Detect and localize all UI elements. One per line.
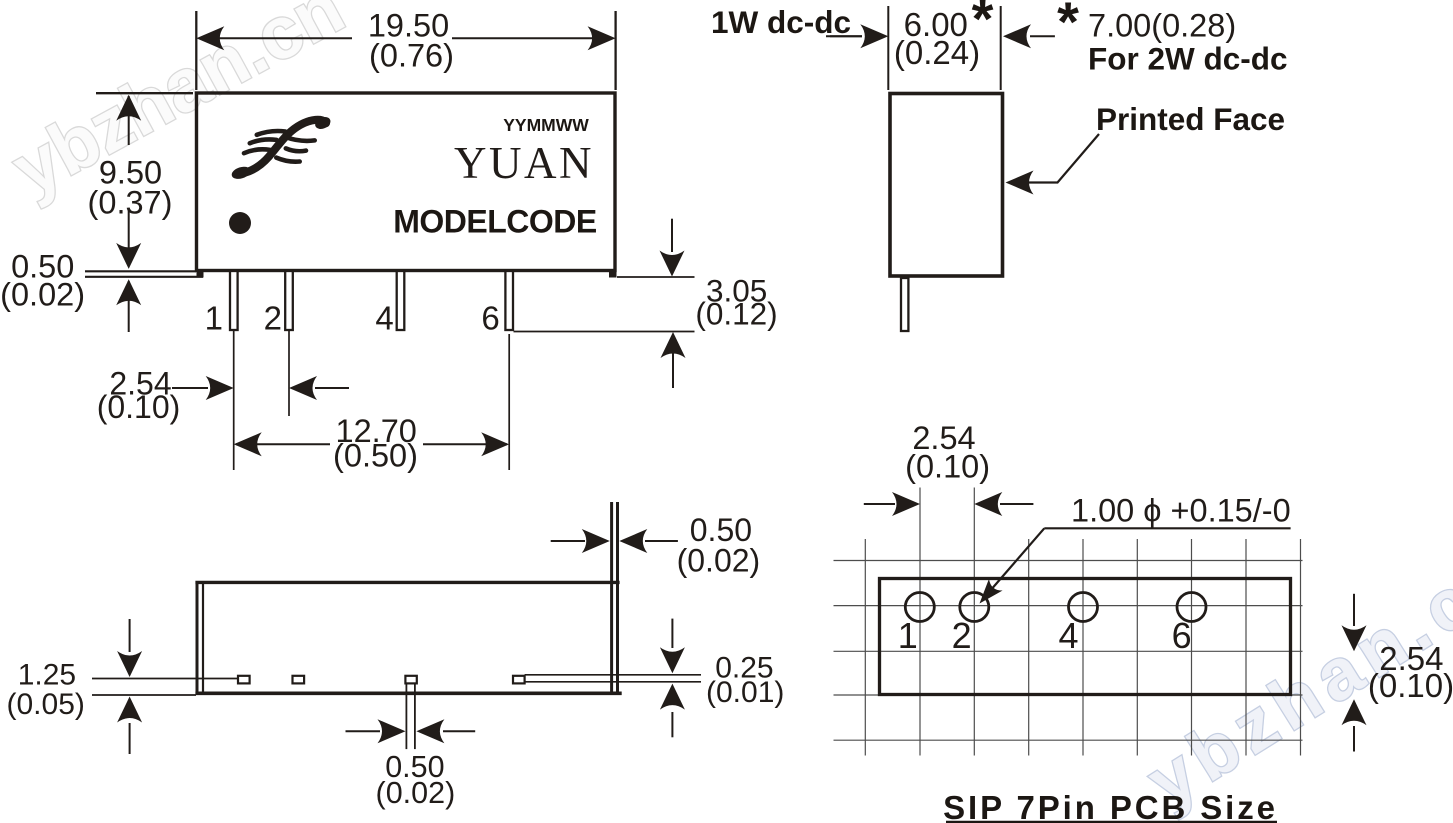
pcb grid bbox=[834, 539, 1303, 756]
svg-text:1.25: 1.25 bbox=[18, 659, 76, 692]
bottom view pad 6 bbox=[513, 676, 525, 684]
front view bottom-right standoff tab bbox=[609, 270, 617, 278]
dimension 9.50 height bbox=[96, 93, 193, 269]
dimension 0.50 standoff left bbox=[85, 271, 203, 332]
title underline bbox=[946, 821, 1277, 823]
svg-text:(0.37): (0.37) bbox=[88, 185, 173, 221]
pcb hole 1 bbox=[905, 593, 934, 622]
pcb hole 6 bbox=[1177, 593, 1206, 622]
dimension 12.70 pin span bbox=[234, 432, 510, 456]
svg-text:1: 1 bbox=[205, 300, 223, 337]
pin 6 extension line bbox=[508, 334, 510, 470]
svg-text:(0.10): (0.10) bbox=[97, 389, 181, 425]
svg-text:(0.24): (0.24) bbox=[894, 34, 980, 71]
svg-text:(0.10): (0.10) bbox=[905, 449, 990, 485]
dimension 0.50 wall top right bbox=[551, 529, 678, 553]
pcb hole 1 grid/extension line bbox=[919, 488, 921, 756]
side view body outline bbox=[890, 94, 1003, 277]
svg-text:(0.01): (0.01) bbox=[706, 676, 784, 709]
leader arrow Printed Face bbox=[1006, 134, 1100, 195]
logo ball terminals bbox=[230, 165, 252, 182]
svg-text:ybzhan.cn: ybzhan.cn bbox=[0, 0, 357, 211]
bottom view wall double line (0.50 wall) bbox=[612, 502, 618, 695]
svg-text:7.00(0.28): 7.00(0.28) bbox=[1088, 7, 1236, 43]
pin 1 extension line bbox=[233, 331, 235, 470]
dimension 2.54 pcb right bbox=[1342, 594, 1367, 752]
pin 6 bbox=[505, 271, 513, 330]
dimension 3.05 pin length bbox=[514, 219, 695, 388]
bottom view pad 1 bbox=[238, 676, 250, 684]
svg-text:For 2W dc-dc: For 2W dc-dc bbox=[1088, 41, 1288, 77]
dimension 6.00 depth bbox=[826, 6, 1055, 90]
svg-text:1.00 ϕ +0.15/-0: 1.00 ϕ +0.15/-0 bbox=[1071, 492, 1291, 528]
svg-text:(0.10): (0.10) bbox=[1368, 667, 1453, 704]
svg-text:1W dc-dc: 1W dc-dc bbox=[711, 4, 851, 40]
svg-text:(0.02): (0.02) bbox=[0, 277, 85, 313]
bottom view outline bbox=[195, 581, 621, 695]
pin 2 extension line bbox=[288, 331, 290, 416]
front view bottom-left standoff tab bbox=[197, 270, 204, 278]
leader arrow 1W dc-dc bbox=[830, 35, 862, 37]
svg-text:(0.76): (0.76) bbox=[369, 38, 454, 74]
svg-text:2: 2 bbox=[952, 615, 972, 656]
pcb hole 4 bbox=[1069, 593, 1098, 622]
watermark bottom-right bbox=[1134, 530, 1453, 823]
pcb hole 2 bbox=[960, 593, 989, 622]
svg-text:(0.12): (0.12) bbox=[695, 296, 777, 332]
pin 1 index dot bbox=[229, 212, 251, 234]
svg-text:YUAN: YUAN bbox=[454, 138, 594, 188]
svg-text:6: 6 bbox=[1172, 615, 1192, 656]
dimension 19.50 width bbox=[196, 11, 615, 90]
svg-text:(0.50): (0.50) bbox=[333, 438, 418, 474]
bottom view pad 4 bbox=[405, 676, 416, 684]
dimension 0.25 right bbox=[525, 619, 701, 738]
svg-text:2: 2 bbox=[264, 300, 282, 337]
svg-text:*: * bbox=[972, 0, 994, 50]
svg-text:4: 4 bbox=[375, 300, 393, 337]
pcb hole 2 grid/extension line bbox=[973, 488, 975, 756]
svg-text:*: * bbox=[1057, 0, 1079, 53]
pin 1 bbox=[230, 271, 238, 330]
pcb outline bbox=[880, 579, 1291, 695]
dimension 0.50 pin width bottom bbox=[346, 684, 476, 749]
svg-text:Printed Face: Printed Face bbox=[1096, 101, 1285, 137]
svg-text:6: 6 bbox=[481, 300, 499, 337]
bottom view pad 2 bbox=[293, 676, 305, 684]
side view pin bbox=[901, 278, 908, 331]
front view body outline bbox=[197, 93, 616, 271]
svg-text:1: 1 bbox=[898, 615, 918, 656]
svg-text:SIP 7Pin PCB Size: SIP 7Pin PCB Size bbox=[943, 789, 1278, 823]
svg-text:MODELCODE: MODELCODE bbox=[393, 204, 597, 240]
pin 4 bbox=[397, 271, 405, 330]
dimension 2.54 pin pitch bbox=[172, 376, 349, 400]
dimension 1.25 left bbox=[92, 619, 238, 754]
watermark top-left bbox=[0, 0, 357, 211]
logo flourish bbox=[244, 120, 326, 173]
pin 2 bbox=[285, 271, 293, 330]
dimension 2.54 pcb pitch top bbox=[864, 492, 1034, 516]
svg-text:(0.02): (0.02) bbox=[376, 776, 456, 810]
svg-text:(0.05): (0.05) bbox=[7, 688, 85, 721]
svg-text:YYMMWW: YYMMWW bbox=[503, 115, 589, 135]
svg-text:4: 4 bbox=[1058, 615, 1078, 656]
svg-text:(0.02): (0.02) bbox=[677, 543, 761, 579]
